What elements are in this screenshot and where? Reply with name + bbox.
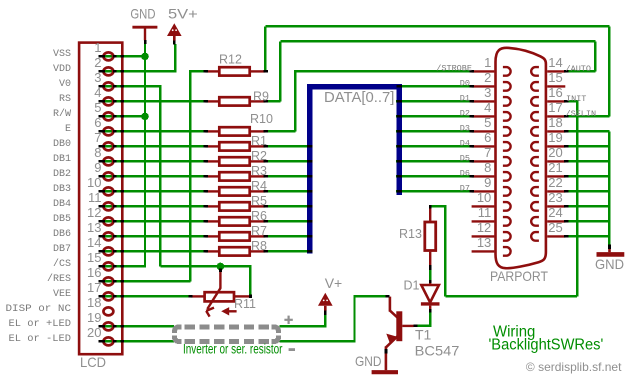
svg-text:17: 17 <box>548 100 562 115</box>
svg-text:PARPORT: PARPORT <box>490 268 548 284</box>
svg-text:BC547: BC547 <box>415 343 460 359</box>
svg-text:DB3: DB3 <box>53 184 71 195</box>
svg-text:23: 23 <box>548 190 562 205</box>
svg-text:INIT: INIT <box>566 94 586 104</box>
svg-text:5: 5 <box>94 100 101 115</box>
svg-text:VSS: VSS <box>53 49 71 60</box>
svg-text:8: 8 <box>484 160 491 175</box>
svg-text:D0: D0 <box>460 78 470 88</box>
svg-text:T1: T1 <box>415 327 432 343</box>
svg-text:D2: D2 <box>460 108 470 118</box>
svg-text:/AUTO: /AUTO <box>566 64 592 74</box>
svg-text:18: 18 <box>87 295 101 310</box>
svg-text:EL or +LED: EL or +LED <box>9 319 72 330</box>
svg-text:D1: D1 <box>404 279 420 293</box>
svg-text:4: 4 <box>94 85 101 100</box>
svg-text:R5: R5 <box>251 194 267 208</box>
svg-text:2: 2 <box>484 70 491 85</box>
svg-text:3: 3 <box>484 85 491 100</box>
svg-text:15: 15 <box>548 70 562 85</box>
svg-text:E: E <box>65 124 71 135</box>
svg-text:DB6: DB6 <box>53 229 71 240</box>
svg-text:D7: D7 <box>460 183 470 193</box>
svg-text:1: 1 <box>94 40 101 55</box>
svg-text:13: 13 <box>87 220 101 235</box>
svg-text:© serdisplib.sf.net: © serdisplib.sf.net <box>526 360 622 374</box>
svg-text:DISP or NC: DISP or NC <box>6 304 72 315</box>
svg-text:D6: D6 <box>460 168 470 178</box>
svg-text:D4: D4 <box>460 138 470 148</box>
svg-text:GND: GND <box>595 256 624 272</box>
svg-text:24: 24 <box>548 205 562 220</box>
svg-text:19: 19 <box>87 310 101 325</box>
svg-text:7: 7 <box>94 130 101 145</box>
svg-text:16: 16 <box>87 265 101 280</box>
svg-text:R4: R4 <box>251 179 267 193</box>
svg-text:8: 8 <box>94 145 101 160</box>
svg-text:R10: R10 <box>250 112 273 126</box>
svg-text:GND: GND <box>355 353 382 369</box>
svg-text:D5: D5 <box>460 153 470 163</box>
svg-text:12: 12 <box>477 220 491 235</box>
svg-text:21: 21 <box>548 160 562 175</box>
svg-text:R11: R11 <box>234 297 256 311</box>
svg-text:/SELIN: /SELIN <box>566 109 597 119</box>
svg-text:13: 13 <box>477 235 491 250</box>
svg-text:1: 1 <box>484 55 491 70</box>
svg-text:19: 19 <box>548 130 562 145</box>
svg-text:/RES: /RES <box>47 273 71 285</box>
svg-text:DB4: DB4 <box>53 199 71 210</box>
svg-text:R13: R13 <box>399 227 422 241</box>
svg-text:4: 4 <box>484 100 491 115</box>
svg-text:10: 10 <box>87 175 101 190</box>
svg-text:/CS: /CS <box>53 258 71 270</box>
svg-text:D1: D1 <box>460 93 470 103</box>
svg-text:20: 20 <box>87 325 101 340</box>
svg-text:R7: R7 <box>251 224 267 238</box>
svg-text:11: 11 <box>88 190 102 205</box>
svg-text:V+: V+ <box>325 275 343 291</box>
svg-text:6: 6 <box>94 115 101 130</box>
svg-text:17: 17 <box>87 280 101 295</box>
svg-text:EL or -LED: EL or -LED <box>9 334 72 345</box>
svg-text:VEE: VEE <box>53 289 71 300</box>
svg-text:DB2: DB2 <box>53 169 71 180</box>
svg-text:DB0: DB0 <box>53 139 71 150</box>
svg-text:14: 14 <box>548 55 562 70</box>
svg-text:3: 3 <box>94 70 101 85</box>
svg-text:9: 9 <box>94 160 101 175</box>
svg-text:DB7: DB7 <box>53 244 71 255</box>
svg-text:18: 18 <box>548 115 562 130</box>
svg-text:D3: D3 <box>460 123 470 133</box>
svg-text:GND: GND <box>130 6 155 22</box>
svg-text:LCD: LCD <box>80 354 106 370</box>
svg-text:5V+: 5V+ <box>168 6 198 22</box>
svg-text:R2: R2 <box>251 149 267 163</box>
svg-text:VDD: VDD <box>53 64 71 75</box>
svg-text:DB1: DB1 <box>53 154 71 165</box>
svg-text:2: 2 <box>94 55 101 70</box>
svg-text:22: 22 <box>548 175 562 190</box>
svg-text:9: 9 <box>484 175 491 190</box>
svg-text:R8: R8 <box>251 239 267 253</box>
svg-text:V0: V0 <box>59 79 71 90</box>
svg-text:'BacklightSWRes': 'BacklightSWRes' <box>489 337 604 354</box>
svg-text:R6: R6 <box>251 209 267 223</box>
svg-text:R1: R1 <box>251 134 267 148</box>
svg-text:7: 7 <box>484 145 491 160</box>
svg-text:R9: R9 <box>253 90 269 104</box>
svg-text:DB5: DB5 <box>53 214 71 225</box>
svg-text:20: 20 <box>548 145 562 160</box>
svg-text:16: 16 <box>548 85 562 100</box>
svg-text:R3: R3 <box>251 164 267 178</box>
svg-text:10: 10 <box>477 190 491 205</box>
svg-text:5: 5 <box>484 115 491 130</box>
svg-text:RS: RS <box>59 94 71 105</box>
svg-text:R12: R12 <box>219 53 242 67</box>
svg-text:14: 14 <box>87 235 101 250</box>
svg-text:12: 12 <box>87 205 101 220</box>
svg-text:25: 25 <box>548 220 562 235</box>
svg-text:Inverter or ser. resistor: Inverter or ser. resistor <box>183 342 283 357</box>
svg-text:6: 6 <box>484 130 491 145</box>
svg-text:R/W: R/W <box>53 108 71 120</box>
svg-text:DATA[0..7]: DATA[0..7] <box>324 90 394 106</box>
svg-text:15: 15 <box>87 250 101 265</box>
svg-text:/STROBE: /STROBE <box>436 63 472 73</box>
svg-text:11: 11 <box>478 205 492 220</box>
